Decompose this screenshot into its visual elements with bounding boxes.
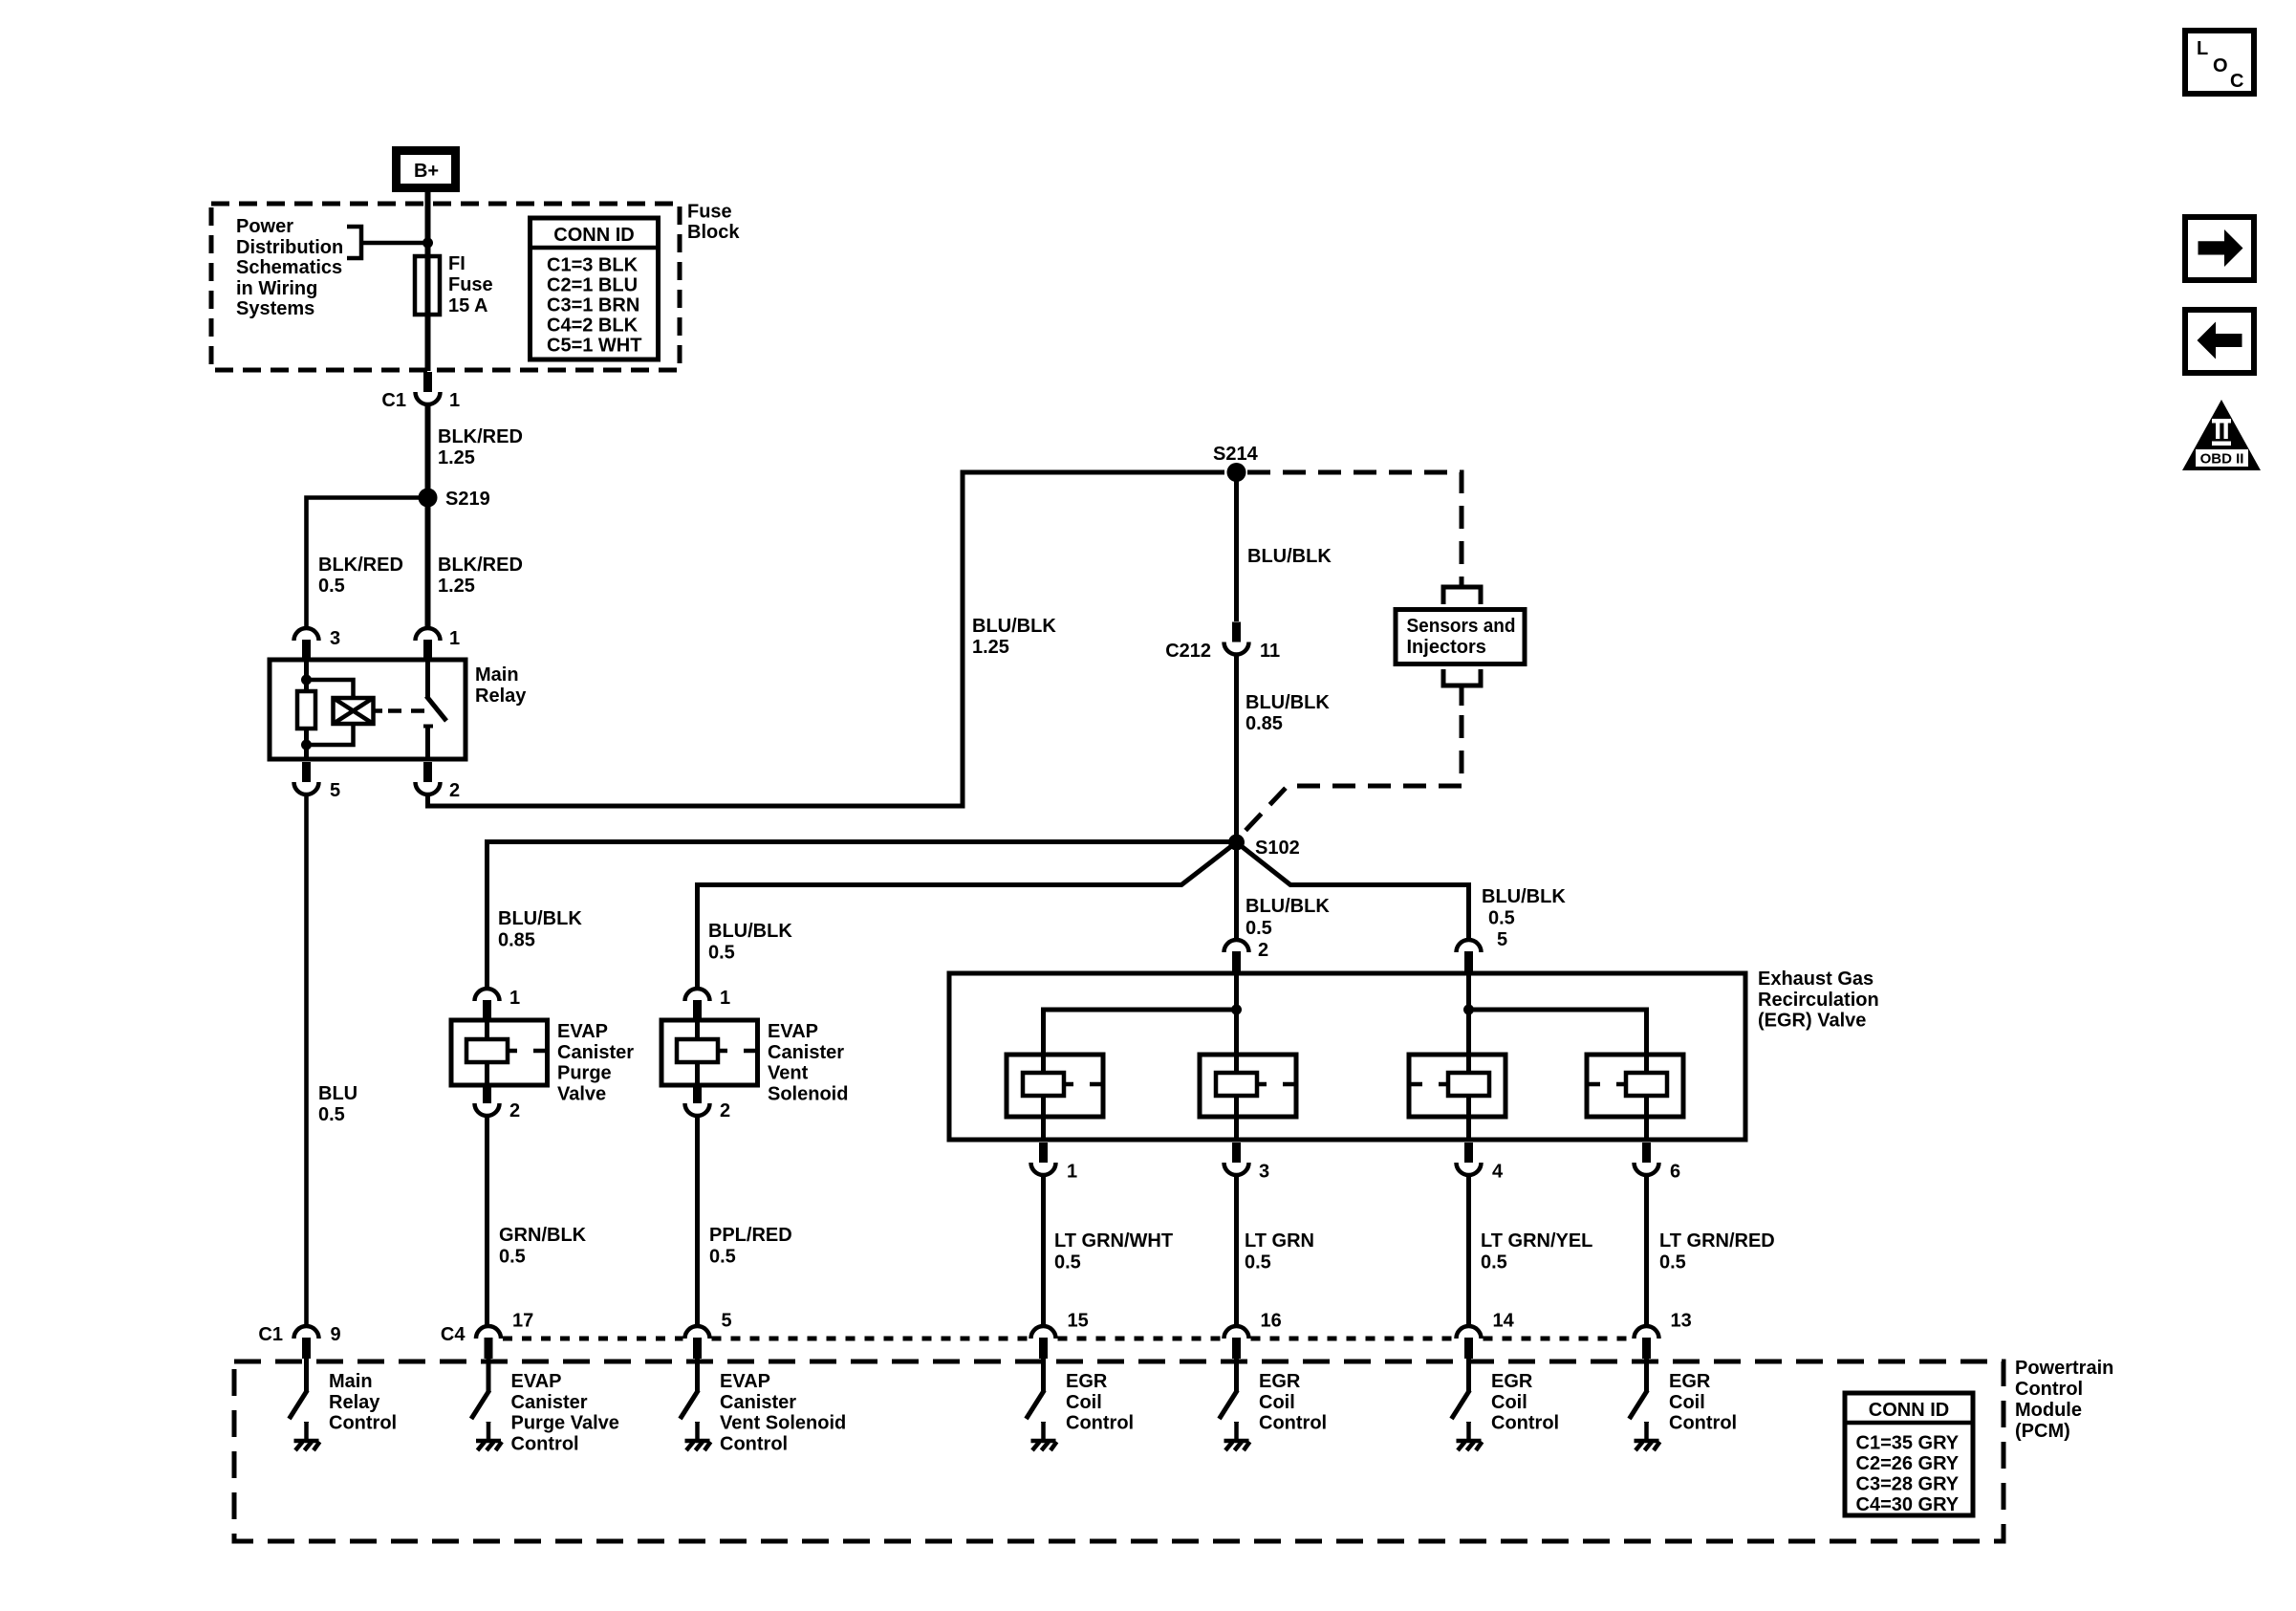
connector EGR pin 6 <box>1635 1143 1659 1175</box>
svg-text:BLK/RED: BLK/RED <box>438 426 523 447</box>
svg-text:BLU: BLU <box>318 1083 357 1104</box>
wire LT GRN/RED 0.5 <box>1644 1175 1649 1326</box>
wire GRN/BLK 0.5 to PCM pin 17 <box>485 1116 489 1326</box>
connector relay pin 2 <box>416 762 441 795</box>
PCM module dashed boundary <box>234 1361 2004 1541</box>
svg-text:GRN/BLK: GRN/BLK <box>499 1225 587 1246</box>
svg-text:9: 9 <box>331 1324 341 1345</box>
svg-text:0.85: 0.85 <box>498 930 535 951</box>
svg-text:EGR: EGR <box>1066 1371 1108 1392</box>
EVAP canister vent solenoid <box>661 1020 758 1085</box>
svg-text:BLU/BLK: BLU/BLK <box>1247 546 1332 567</box>
svg-text:2: 2 <box>449 780 460 801</box>
fuse FI 15 A <box>415 256 440 315</box>
svg-text:Purge: Purge <box>557 1063 612 1084</box>
svg-text:Injectors: Injectors <box>1407 637 1486 658</box>
svg-text:C3=28 GRY: C3=28 GRY <box>1856 1474 1960 1495</box>
wire BLK/RED 1.25 to S219 <box>425 404 431 628</box>
connector PCM pin 5 <box>685 1326 710 1359</box>
wire S102 to EVAP canister purge valve <box>487 842 1237 990</box>
ground <box>1041 1422 1046 1423</box>
fuse block label <box>687 202 740 244</box>
EGR coil C <box>1409 1055 1505 1117</box>
splice S219 <box>419 489 438 508</box>
EGR coil output wires <box>1041 1117 1046 1140</box>
svg-text:BLK/RED: BLK/RED <box>438 555 523 576</box>
svg-text:Control: Control <box>1669 1413 1737 1434</box>
wire S102 to EGR pin 5 <box>1237 842 1469 940</box>
svg-text:OBD II: OBD II <box>2200 451 2244 468</box>
svg-text:2: 2 <box>509 1100 520 1121</box>
connector PCM pin 16 <box>1224 1326 1249 1359</box>
svg-text:Block: Block <box>687 222 740 243</box>
PCM driver switch (EVAP Canister) <box>487 1359 491 1391</box>
svg-text:0.5: 0.5 <box>499 1247 526 1268</box>
svg-text:C1: C1 <box>381 390 406 411</box>
svg-text:0.5: 0.5 <box>1481 1252 1507 1274</box>
svg-text:C1=35 GRY: C1=35 GRY <box>1856 1433 1960 1454</box>
svg-text:EVAP: EVAP <box>511 1371 562 1392</box>
label BLK/RED 1.25 right branch <box>438 555 523 597</box>
ground <box>487 1422 491 1423</box>
connector relay pin 5 <box>294 762 319 795</box>
svg-text:Control: Control <box>1259 1413 1327 1434</box>
ground <box>304 1422 309 1423</box>
svg-text:2: 2 <box>720 1100 730 1121</box>
svg-text:11: 11 <box>1260 641 1280 662</box>
svg-text:C2=1 BLU: C2=1 BLU <box>547 275 638 296</box>
connector PCM pin 13 <box>1635 1326 1659 1359</box>
svg-text:5: 5 <box>1497 929 1507 950</box>
svg-text:Control: Control <box>720 1433 788 1454</box>
svg-text:EVAP: EVAP <box>557 1021 608 1042</box>
svg-text:EGR: EGR <box>1491 1371 1533 1392</box>
bracket below sensors box <box>1443 669 1481 686</box>
PCM driver switch (EGR Coil) <box>1466 1359 1471 1391</box>
svg-text:1: 1 <box>509 988 520 1009</box>
EGR coil D <box>1587 1055 1683 1117</box>
svg-text:Canister: Canister <box>557 1042 634 1063</box>
svg-text:4: 4 <box>1492 1162 1504 1183</box>
svg-text:(PCM): (PCM) <box>2015 1421 2070 1442</box>
ground <box>1644 1422 1649 1423</box>
svg-text:Vent Solenoid: Vent Solenoid <box>720 1413 846 1434</box>
svg-text:16: 16 <box>1261 1311 1282 1332</box>
svg-text:EVAP: EVAP <box>720 1371 770 1392</box>
svg-text:1: 1 <box>1067 1162 1077 1183</box>
EGR valve box <box>949 973 1745 1140</box>
connector vent solenoid pin 2 <box>685 1083 710 1116</box>
svg-text:Coil: Coil <box>1491 1392 1527 1413</box>
node EGR left <box>1231 1005 1242 1015</box>
svg-text:0.85: 0.85 <box>1245 713 1283 734</box>
svg-text:L: L <box>2197 38 2208 59</box>
svg-text:Control: Control <box>1066 1413 1134 1434</box>
wire S102 to EVAP canister vent solenoid <box>698 842 1237 989</box>
svg-text:6: 6 <box>1670 1162 1680 1183</box>
svg-text:Control: Control <box>1491 1413 1559 1434</box>
PCM connector table CONN ID <box>1845 1393 1973 1515</box>
ground <box>1234 1422 1239 1423</box>
svg-text:1: 1 <box>449 390 460 411</box>
svg-text:15 A: 15 A <box>448 295 488 316</box>
svg-text:BLU/BLK: BLU/BLK <box>1245 896 1330 917</box>
svg-text:13: 13 <box>1671 1311 1692 1332</box>
svg-text:S102: S102 <box>1255 838 1300 859</box>
svg-text:1: 1 <box>720 988 730 1009</box>
connector relay pin 1 <box>416 628 441 661</box>
svg-text:CONN ID: CONN ID <box>553 225 634 246</box>
stub below bracket <box>1460 686 1464 706</box>
svg-text:0.5: 0.5 <box>1054 1252 1081 1274</box>
connector PCM pin 15 <box>1031 1326 1056 1359</box>
connector EGR pin 5 <box>1457 940 1482 972</box>
svg-text:Coil: Coil <box>1259 1392 1295 1413</box>
svg-text:14: 14 <box>1493 1311 1515 1332</box>
svg-text:Control: Control <box>329 1413 397 1434</box>
svg-text:Systems: Systems <box>236 298 314 319</box>
EGR internal wires left pair <box>1234 972 1239 1055</box>
svg-text:Vent: Vent <box>768 1063 809 1084</box>
wire BLU/BLK S214 down <box>1234 472 1239 621</box>
svg-text:EVAP: EVAP <box>768 1021 818 1042</box>
relay coil (box with X) <box>334 698 374 724</box>
connector PCM pin 14 <box>1457 1326 1482 1359</box>
svg-text:17: 17 <box>512 1311 533 1332</box>
svg-text:FI: FI <box>448 253 466 274</box>
svg-text:Main: Main <box>475 664 519 686</box>
wire bracket to node <box>361 241 428 246</box>
svg-text:BLK/RED: BLK/RED <box>318 555 403 576</box>
relay switch <box>425 660 430 697</box>
EVAP canister purge valve solenoid <box>451 1020 548 1085</box>
svg-text:CONN ID: CONN ID <box>1869 1400 1949 1421</box>
fuse block dashed boundary <box>211 204 680 370</box>
connector EGR pin 2 <box>1224 940 1249 972</box>
svg-text:0.5: 0.5 <box>709 1247 736 1268</box>
svg-text:Coil: Coil <box>1669 1392 1705 1413</box>
OBD II icon <box>2182 400 2261 470</box>
LOC reference icon <box>2185 31 2254 94</box>
svg-text:Relay: Relay <box>475 686 527 707</box>
note: power distribution schematics reference <box>236 216 343 319</box>
PCM label Powertrain Control Module <box>2015 1358 2113 1442</box>
svg-text:Relay: Relay <box>329 1392 380 1413</box>
left arrow icon <box>2185 310 2254 373</box>
svg-text:Distribution: Distribution <box>236 237 343 258</box>
PCM driver switch (EGR Coil) <box>1644 1359 1649 1391</box>
svg-text:Power: Power <box>236 216 293 237</box>
dashed link sensors to S102 <box>1240 715 1462 837</box>
svg-text:0.5: 0.5 <box>1488 908 1515 929</box>
wire LT GRN/YEL 0.5 <box>1466 1175 1471 1326</box>
svg-text:B+: B+ <box>414 161 439 182</box>
right arrow icon <box>2185 217 2254 280</box>
connector PCM pin 17 <box>476 1326 501 1359</box>
PCM driver switch (Main Relay) <box>304 1359 309 1391</box>
svg-text:BLU/BLK: BLU/BLK <box>972 616 1056 637</box>
dotted connector row line <box>503 1337 683 1341</box>
svg-text:0.5: 0.5 <box>1245 918 1272 939</box>
svg-text:Powertrain: Powertrain <box>2015 1358 2113 1379</box>
svg-text:3: 3 <box>330 628 340 649</box>
svg-text:in Wiring: in Wiring <box>236 278 317 299</box>
svg-text:C5=1 WHT: C5=1 WHT <box>547 336 641 357</box>
svg-text:Control: Control <box>511 1433 579 1454</box>
EGR coil B <box>1200 1055 1296 1117</box>
PCM driver switch (EGR Coil) <box>1041 1359 1046 1391</box>
connector EGR pin 1 <box>1031 1143 1056 1175</box>
svg-text:O: O <box>2213 55 2228 76</box>
svg-text:Sensors and: Sensors and <box>1407 616 1516 637</box>
svg-text:1.25: 1.25 <box>438 576 475 597</box>
svg-text:BLU/BLK: BLU/BLK <box>498 908 582 929</box>
svg-text:5: 5 <box>330 780 340 801</box>
wire BLU/BLK 0.85 to S102 <box>1234 655 1239 843</box>
svg-text:C3=1 BRN: C3=1 BRN <box>547 295 639 316</box>
svg-text:0.5: 0.5 <box>318 1104 345 1125</box>
connector EGR pin 4 <box>1457 1143 1482 1175</box>
wire LT GRN/WHT 0.5 <box>1041 1175 1046 1326</box>
svg-text:C4=30 GRY: C4=30 GRY <box>1856 1494 1960 1515</box>
connector purge valve pin 2 <box>475 1083 500 1116</box>
node relay coil bottom <box>301 740 312 751</box>
connector relay pin 3 <box>294 628 319 661</box>
svg-text:C: C <box>2230 71 2243 92</box>
svg-text:BLU/BLK: BLU/BLK <box>708 921 792 942</box>
svg-text:S219: S219 <box>445 489 490 510</box>
svg-text:EGR: EGR <box>1259 1371 1301 1392</box>
wire BLU 0.5 relay pin5 to PCM <box>304 795 309 1326</box>
svg-text:0.5: 0.5 <box>318 576 345 597</box>
svg-text:Canister: Canister <box>511 1392 588 1413</box>
sensors and injectors box <box>1396 610 1525 664</box>
svg-text:C4=2 BLK: C4=2 BLK <box>547 316 639 337</box>
fuse block connector table CONN ID <box>531 218 659 359</box>
wire PPL/RED 0.5 to PCM pin 5 <box>695 1116 700 1326</box>
wire BLU/BLK 1.25 relay pin2 to S214 <box>428 472 1225 806</box>
PCM driver switch (EVAP Canister) <box>695 1359 700 1391</box>
node at fuse feed <box>422 238 433 249</box>
svg-text:Fuse: Fuse <box>448 274 493 295</box>
svg-text:C1=3 BLK: C1=3 BLK <box>547 255 639 276</box>
svg-text:Canister: Canister <box>720 1392 796 1413</box>
ground <box>695 1422 700 1423</box>
svg-text:Control: Control <box>2015 1379 2083 1400</box>
svg-text:0.5: 0.5 <box>1245 1252 1271 1274</box>
ground <box>1466 1422 1471 1423</box>
connector C1 pin 1 <box>416 372 441 404</box>
splice S102 <box>1228 835 1245 851</box>
svg-text:Canister: Canister <box>768 1042 844 1063</box>
svg-text:1.25: 1.25 <box>438 447 475 468</box>
dashed branch S214 to sensors and injectors <box>1247 472 1462 587</box>
EGR internal wires right pair <box>1466 972 1471 1055</box>
connector C212 pin 11 <box>1224 622 1249 655</box>
svg-text:LT GRN/WHT: LT GRN/WHT <box>1054 1230 1173 1252</box>
svg-text:LT GRN: LT GRN <box>1245 1230 1314 1252</box>
svg-text:(EGR) Valve: (EGR) Valve <box>1758 1011 1866 1032</box>
svg-text:C1: C1 <box>258 1324 283 1345</box>
svg-text:BLU/BLK: BLU/BLK <box>1482 886 1566 907</box>
svg-text:5: 5 <box>722 1311 732 1332</box>
svg-text:Coil: Coil <box>1066 1392 1102 1413</box>
relay coil branch wires <box>304 660 309 691</box>
bracket from note to wire <box>347 227 361 258</box>
main relay box <box>270 660 466 759</box>
node relay coil top <box>301 675 312 686</box>
svg-text:3: 3 <box>1259 1162 1269 1183</box>
EGR coil A <box>1007 1055 1103 1117</box>
svg-text:Valve: Valve <box>557 1084 606 1105</box>
node EGR right <box>1463 1005 1474 1015</box>
wire S219 branch left BLK/RED 0.5 <box>307 498 428 629</box>
connector vent solenoid pin 1 <box>685 989 710 1021</box>
svg-text:C4: C4 <box>441 1324 466 1345</box>
svg-text:C212: C212 <box>1165 641 1211 662</box>
svg-text:S214: S214 <box>1213 444 1259 465</box>
connector purge valve pin 1 <box>475 989 500 1021</box>
svg-text:Schematics: Schematics <box>236 257 342 278</box>
svg-text:Solenoid: Solenoid <box>768 1084 848 1105</box>
bracket above sensors box <box>1443 587 1481 604</box>
svg-text:Fuse: Fuse <box>687 202 732 223</box>
wire B+ down through fuse <box>425 192 431 371</box>
svg-text:C2=26 GRY: C2=26 GRY <box>1856 1453 1960 1474</box>
wire LT GRN 0.5 <box>1234 1175 1239 1326</box>
svg-text:0.5: 0.5 <box>708 943 735 964</box>
svg-text:2: 2 <box>1258 940 1268 961</box>
svg-text:LT GRN/YEL: LT GRN/YEL <box>1481 1230 1592 1252</box>
connector PCM pin 9 <box>294 1326 319 1359</box>
svg-text:0.5: 0.5 <box>1659 1252 1686 1274</box>
power node B+ <box>392 146 460 192</box>
svg-text:Exhaust Gas: Exhaust Gas <box>1758 969 1874 990</box>
connector EGR pin 3 <box>1224 1143 1249 1175</box>
svg-text:PPL/RED: PPL/RED <box>709 1225 792 1246</box>
svg-text:1: 1 <box>449 628 460 649</box>
svg-text:Recirculation: Recirculation <box>1758 990 1879 1011</box>
PCM driver switch (EGR Coil) <box>1234 1359 1239 1391</box>
svg-text:Main: Main <box>329 1371 373 1392</box>
svg-text:15: 15 <box>1068 1311 1089 1332</box>
svg-text:BLU/BLK: BLU/BLK <box>1245 692 1330 713</box>
relay actuator dashed link <box>374 708 383 713</box>
svg-text:Purge Valve: Purge Valve <box>511 1413 619 1434</box>
svg-text:Module: Module <box>2015 1400 2082 1421</box>
splice S214 <box>1227 463 1246 482</box>
wire S102 to EGR pin 2 <box>1234 850 1239 940</box>
relay resistor <box>297 691 315 729</box>
svg-text:1.25: 1.25 <box>972 637 1009 658</box>
svg-text:LT GRN/RED: LT GRN/RED <box>1659 1230 1775 1252</box>
svg-text:EGR: EGR <box>1669 1371 1711 1392</box>
